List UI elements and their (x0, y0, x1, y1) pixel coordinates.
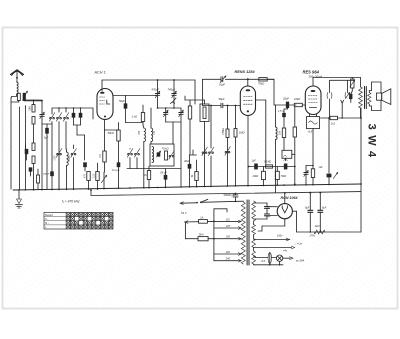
svg-text:RGN 1064: RGN 1064 (281, 196, 298, 200)
resistor 1k2 box (330, 116, 338, 119)
svg-text:0,5MΩ: 0,5MΩ (223, 128, 225, 135)
wire grid line (113, 95, 158, 97)
svg-text:RES 964: RES 964 (303, 69, 320, 74)
wire vertical (19, 107, 21, 189)
band contact (128, 153, 130, 155)
heater fuse (268, 253, 271, 264)
svg-text:70kΩ: 70kΩ (258, 81, 264, 85)
switch position table (44, 213, 113, 230)
svg-text:180v: 180v (277, 235, 283, 238)
svg-text:110: 110 (226, 218, 231, 221)
IF coil primary (142, 125, 145, 128)
capacitor 0.1 (349, 94, 352, 99)
speaker magnet (377, 93, 382, 100)
wire from tube to screen line (256, 99, 266, 101)
wire vertical x361 (360, 108, 362, 232)
svg-text:1MΩ: 1MΩ (239, 131, 245, 135)
HT wire upper (254, 202, 267, 204)
resistor 10k vert (282, 128, 285, 138)
svg-text:→ +Ua: → +Ua (294, 242, 303, 246)
wire vertical from rail (202, 79, 204, 105)
cathode box (307, 117, 320, 129)
resistor 20k (262, 171, 266, 179)
svg-text:5μF: 5μF (44, 137, 49, 140)
heater wire bottom (256, 264, 284, 266)
smoothing resistor (314, 230, 325, 234)
speaker frame (372, 82, 382, 93)
svg-text:470: 470 (84, 173, 87, 178)
node (247, 78, 249, 80)
power transformer HT secondary (252, 201, 256, 221)
contact on AVC line (202, 152, 204, 154)
selector top link (214, 208, 227, 210)
wire (104, 120, 106, 131)
filter cap 8uF second (319, 193, 321, 211)
antenna (11, 70, 24, 75)
tube RENS1284 envelope (240, 86, 255, 116)
coil L2 180 (32, 105, 35, 113)
wire to tube anode 2 (267, 215, 270, 217)
power transformer heater winding (252, 251, 256, 264)
bias network link (306, 165, 313, 167)
band switch contact (57, 117, 59, 119)
tap arrow 240 (214, 260, 238, 262)
fuse 1A (199, 220, 208, 224)
rectifier anode cap upper (265, 206, 270, 208)
svg-text:70kΩ: 70kΩ (281, 175, 287, 178)
svg-text:91μF: 91μF (219, 83, 225, 87)
B plus line (91, 190, 361, 196)
grid clip 2 (347, 80, 349, 92)
ground symbol (18, 190, 20, 199)
AVC resistor can (200, 104, 209, 122)
capacitor (80, 108, 82, 113)
svg-text:10kΩ: 10kΩ (294, 97, 300, 101)
wire (24, 100, 42, 102)
rectifier below loop (284, 219, 286, 226)
electrolytic 5uF (46, 124, 48, 128)
second supply arrow (254, 247, 292, 249)
svg-text:.05 μF: .05 μF (160, 171, 168, 175)
tube RES964 internals (308, 96, 318, 103)
grid resistor 2 (235, 106, 237, 129)
tube RENS1284 internals (244, 97, 253, 105)
wire (126, 122, 144, 124)
wire corner (194, 80, 196, 104)
capacitor (73, 108, 75, 113)
antenna coil L1 (17, 82, 19, 94)
svg-text:1A: 1A (200, 217, 203, 220)
speaker wires (369, 90, 371, 92)
svg-text:70 kΩ: 70 kΩ (162, 147, 169, 151)
bias trimmer (304, 172, 308, 174)
box trimmer cap (157, 153, 160, 157)
power transformer core (246, 200, 248, 265)
svg-text:53 V: 53 V (181, 211, 187, 215)
output transformer primary (360, 78, 362, 88)
wire (321, 117, 331, 119)
cathode lower (312, 130, 314, 169)
svg-text:470μF: 470μF (152, 88, 160, 92)
wire (10, 98, 12, 189)
mains top line (201, 201, 244, 202)
capacitor (83, 163, 86, 168)
tube ACH1 envelope (97, 89, 113, 120)
resistor (32, 156, 35, 164)
svg-text:20kΩ: 20kΩ (252, 175, 259, 178)
wire vertical (25, 106, 27, 190)
resistor 70k (275, 171, 279, 179)
band switch contact (50, 117, 52, 119)
oscillator box (150, 144, 174, 166)
capacitor (29, 168, 32, 172)
svg-text:1k2: 1k2 (331, 122, 336, 126)
bias resistor (311, 169, 314, 178)
svg-text:50μF: 50μF (119, 99, 125, 103)
svg-text:DKA: DKA (199, 234, 204, 237)
resistor 50 (147, 171, 150, 180)
wire corner (273, 79, 275, 105)
wire vertical (33, 124, 35, 143)
resistor (32, 143, 35, 151)
coil zigzag (67, 152, 69, 166)
svg-text:220: 220 (225, 251, 231, 254)
bottom rail (297, 231, 362, 233)
wire (127, 168, 181, 170)
svg-text:125: 125 (226, 225, 231, 228)
tap arrow 110 (238, 220, 242, 223)
capacitor 5n (25, 149, 28, 154)
tone box (282, 150, 292, 158)
svg-text:20μF: 20μF (282, 97, 289, 101)
mains terminal arrow 2 (185, 221, 199, 223)
V connector (341, 100, 344, 103)
filament loop (292, 210, 296, 212)
bias capacitor (328, 118, 330, 173)
resistor (96, 172, 99, 181)
band contact (135, 153, 137, 155)
svg-text:0,1 μF: 0,1 μF (112, 168, 120, 172)
tube RES964 envelope (305, 86, 321, 115)
svg-text:1,5 n: 1,5 n (278, 110, 284, 113)
wire vertical (51, 108, 53, 114)
capacitor (284, 164, 287, 170)
box resistor (165, 151, 168, 160)
svg-text:102: 102 (319, 166, 324, 169)
filter cap 8uF first (309, 193, 311, 210)
wire (185, 99, 205, 101)
anode wire (312, 78, 314, 87)
wire cathode box bottom (312, 129, 314, 130)
wire tube top to top rail (101, 80, 103, 91)
trimmer capacitor C1 (41, 101, 43, 115)
IF coil secondary (150, 108, 152, 128)
band switch contact (71, 153, 73, 155)
resistor 0.1M (266, 165, 273, 168)
bus dots right (305, 184, 307, 186)
svg-text:f₁ ≈ 470 kHz: f₁ ≈ 470 kHz (62, 199, 80, 203)
contact on grid leak (225, 151, 227, 153)
wire (158, 107, 175, 109)
screen coil (275, 105, 277, 127)
rectifier cathode to B+ (284, 193, 286, 204)
antenna coupling transformer (17, 93, 20, 100)
rectifier filament (282, 208, 287, 213)
wire vertical (180, 122, 182, 169)
wire vertical (92, 108, 94, 119)
node dot (41, 100, 43, 102)
svg-text:RENS 1284: RENS 1284 (235, 70, 256, 74)
svg-text:20000: 20000 (69, 155, 71, 162)
top rail B (203, 78, 222, 80)
svg-text:50μF: 50μF (219, 97, 225, 101)
screen line (274, 104, 296, 106)
power transformer primary (241, 202, 245, 264)
capacitor 0.1uF (117, 163, 120, 168)
wire vertical with contact (210, 106, 212, 149)
svg-text:0,1MΩ: 0,1MΩ (264, 160, 271, 163)
bias arrow mark (333, 172, 337, 178)
oscillator trimmer (165, 108, 167, 113)
suppressor DKA (184, 222, 186, 239)
wire (166, 121, 181, 123)
band switch contact (64, 117, 66, 119)
tap arrow 125 (214, 227, 238, 229)
svg-text:Bereich: Bereich (45, 214, 54, 217)
heater rail (330, 79, 354, 81)
wire (105, 129, 119, 131)
anode resistor 70k (259, 78, 267, 81)
resistor (103, 151, 106, 162)
node (360, 117, 362, 119)
selector vertical (213, 209, 215, 261)
svg-text:240: 240 (225, 258, 231, 261)
svg-text:ACH 1: ACH 1 (94, 71, 106, 75)
svg-text:zu 064: zu 064 (295, 259, 305, 263)
svg-text:1μF: 1μF (252, 160, 257, 163)
wire anode (247, 79, 249, 86)
wire (190, 154, 197, 156)
top rail (102, 79, 195, 81)
table marks (66, 213, 70, 217)
output choke (351, 78, 353, 80)
svg-text:50kΩ: 50kΩ (108, 131, 114, 135)
heater arrow right (283, 257, 290, 259)
wire vertical (33, 164, 35, 190)
resistor (87, 172, 90, 181)
svg-text:≈0,3: ≈0,3 (261, 260, 266, 263)
svg-text:8μF: 8μF (322, 207, 327, 210)
oscillator trimmer 2 (180, 108, 182, 113)
potentiometer (101, 175, 106, 182)
grid clip 1 (329, 80, 331, 92)
resistor (32, 117, 35, 125)
svg-text:270v: 270v (309, 235, 316, 238)
svg-text:1707: 1707 (54, 155, 56, 161)
wire horizontal (26, 99, 42, 101)
svg-text:200μF: 200μF (42, 174, 50, 176)
tube ACH1 internals (100, 97, 105, 104)
resistor 5k (195, 172, 198, 181)
box contact (169, 155, 171, 157)
grid stopper 10k (294, 103, 302, 106)
speaker cone (382, 89, 391, 105)
svg-text:8μF: 8μF (305, 207, 310, 210)
pilot lamp (276, 255, 282, 261)
wave switch S (171, 102, 175, 103)
rectifier tube RGN1064 (277, 204, 292, 219)
band switch contact (57, 153, 59, 155)
svg-text:3 W 4: 3 W 4 (366, 124, 378, 159)
wire horizontal (42, 123, 52, 125)
power transformer bias winding (252, 239, 256, 248)
svg-text:K ↓: K ↓ (45, 218, 48, 221)
sub-bus (52, 107, 93, 109)
grid leak vertical (294, 107, 296, 127)
screen resistor (188, 106, 191, 119)
svg-text:180: 180 (28, 106, 32, 111)
capacitor 1uF (254, 164, 257, 170)
output transformer secondary (368, 93, 371, 105)
rectifier anode cap lower (265, 213, 270, 215)
bus junction dots (18, 189, 20, 191)
grid resistor 1M (227, 106, 229, 130)
tap arrow 220 (214, 253, 238, 255)
mains terminal arrow 1 (180, 202, 196, 204)
resistor (37, 175, 40, 183)
cathode wire (247, 116, 249, 186)
svg-text:+0,5: +0,5 (308, 130, 313, 133)
svg-text:M ↓: M ↓ (45, 222, 49, 225)
ground bus (13, 184, 361, 190)
wire to tube anode 1 (267, 206, 277, 208)
heater wire top (256, 257, 269, 259)
output transformer core (364, 87, 366, 109)
power transformer rectifier filament winding (252, 225, 256, 235)
B plus arrow (254, 239, 287, 241)
box coil (152, 147, 154, 163)
padder 91pF (220, 77, 222, 82)
svg-text:1kΩ: 1kΩ (315, 224, 320, 228)
svg-text:150: 150 (226, 236, 231, 239)
wire (74, 124, 81, 126)
mains switch (196, 202, 198, 204)
svg-text:1 nΩ: 1 nΩ (132, 115, 138, 119)
tap arrow 150 (238, 237, 242, 240)
screen network line (249, 166, 295, 168)
